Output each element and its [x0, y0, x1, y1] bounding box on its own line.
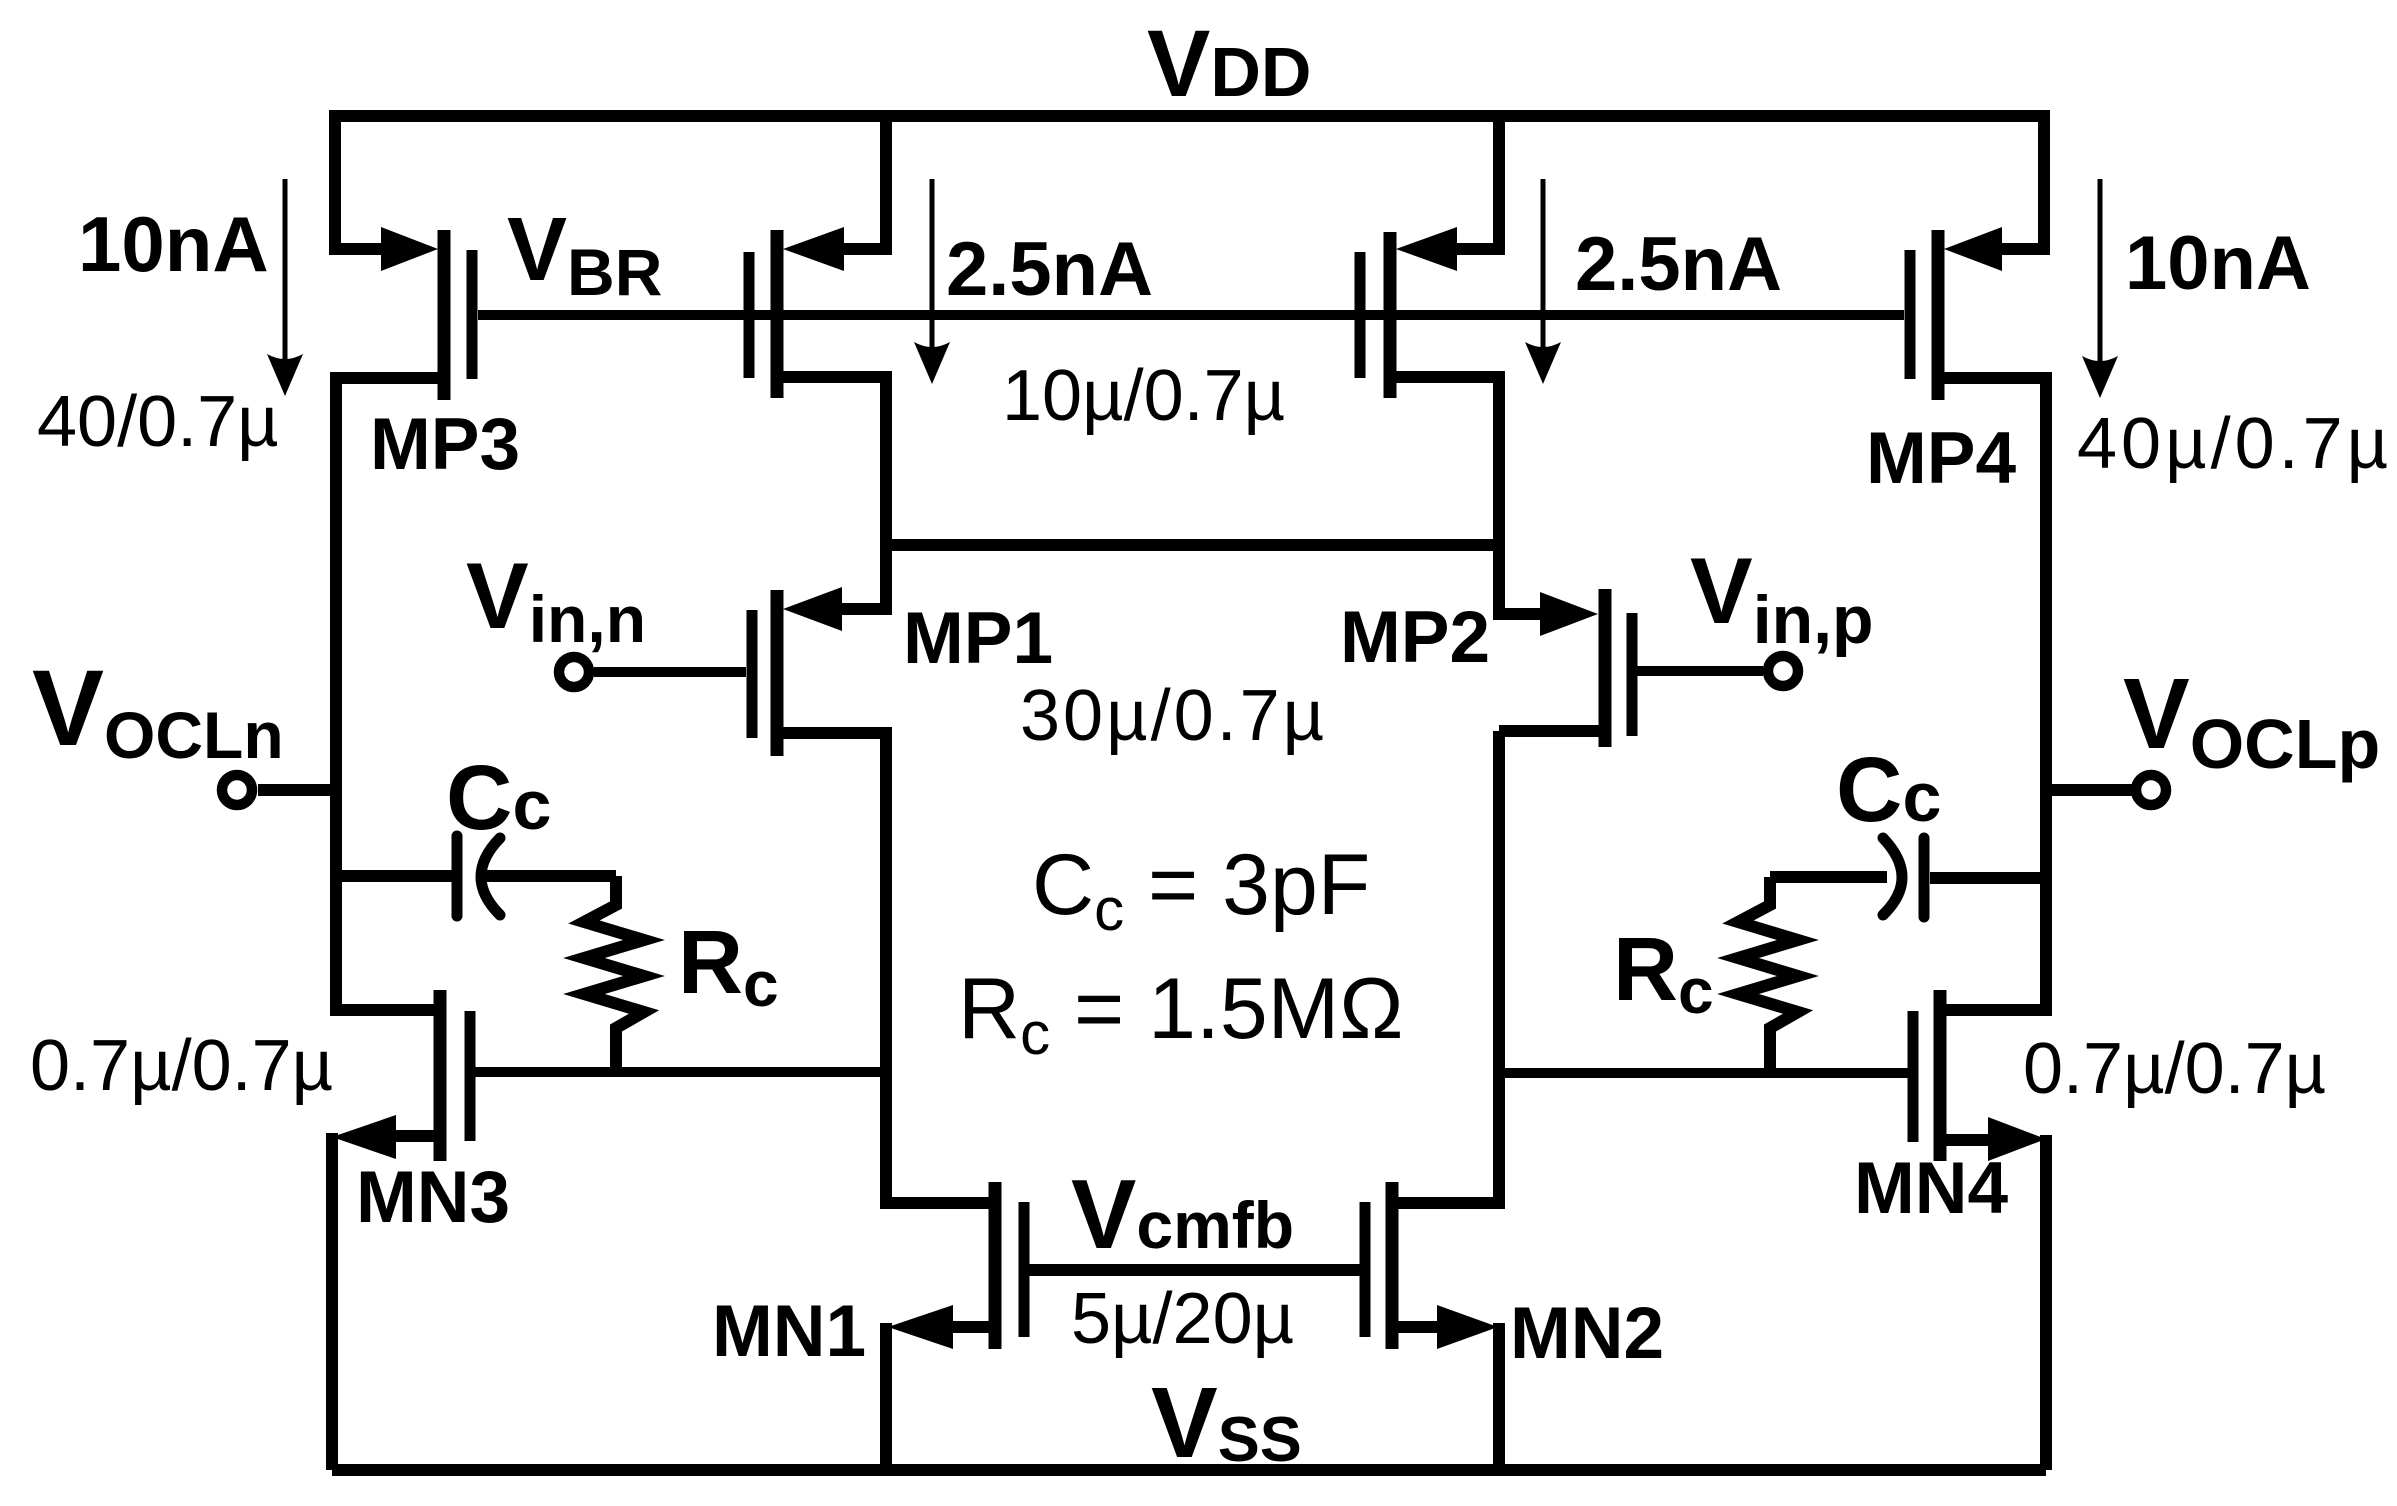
svg-text:40µ/0.7µ: 40µ/0.7µ: [2077, 404, 2392, 484]
svg-text:MN4: MN4: [1854, 1148, 2009, 1229]
svg-text:MP2: MP2: [1340, 597, 1490, 678]
svg-text:MP1: MP1: [903, 598, 1053, 679]
svg-text:MP3: MP3: [370, 404, 520, 485]
svg-text:30µ/0.7µ: 30µ/0.7µ: [1020, 676, 1327, 756]
svg-text:10nA: 10nA: [2125, 221, 2311, 306]
svg-text:MN1: MN1: [712, 1291, 866, 1372]
svg-text:40/0.7µ: 40/0.7µ: [37, 382, 279, 462]
svg-text:MP4: MP4: [1866, 418, 2017, 499]
svg-text:10nA: 10nA: [78, 200, 269, 288]
svg-text:2.5nA: 2.5nA: [1575, 222, 1782, 307]
svg-text:Cc = 3pF: Cc = 3pF: [1032, 837, 1370, 943]
svg-text:5µ/20µ: 5µ/20µ: [1071, 1279, 1294, 1359]
svg-text:MN2: MN2: [1510, 1293, 1664, 1374]
svg-text:MN3: MN3: [356, 1157, 510, 1238]
svg-text:0.7µ/0.7µ: 0.7µ/0.7µ: [30, 1026, 333, 1106]
svg-text:2.5nA: 2.5nA: [946, 227, 1153, 312]
svg-text:10µ/0.7µ: 10µ/0.7µ: [1002, 356, 1285, 436]
svg-text:0.7µ/0.7µ: 0.7µ/0.7µ: [2023, 1029, 2326, 1109]
